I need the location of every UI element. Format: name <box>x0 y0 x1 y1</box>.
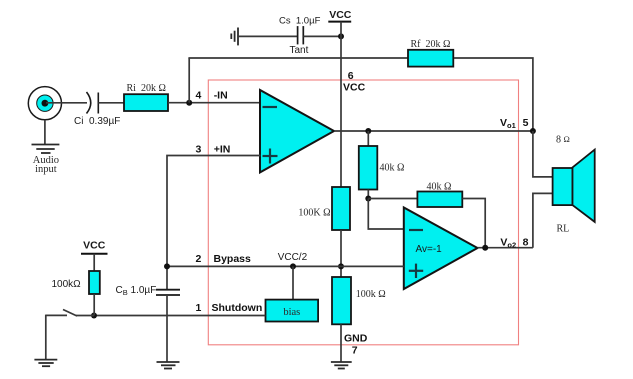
wire junction down to op-amp2 -IN <box>368 199 404 230</box>
wire 40k bottom to junction <box>367 190 369 199</box>
wire feedback rail to Rf <box>188 57 408 59</box>
svg-text:5: 5 <box>523 117 529 129</box>
node 4 junction <box>186 100 192 106</box>
switch SW1 <box>46 310 94 317</box>
wire VCC to 100k <box>93 254 95 271</box>
node divider tap VCC/2 <box>338 263 344 269</box>
wire connector to ground <box>44 120 46 145</box>
svg-text:CB 1.0µF: CB 1.0µF <box>116 285 157 297</box>
op-amp U2 Av=-1 <box>404 208 478 290</box>
svg-text:6: 6 <box>348 70 354 82</box>
svg-text:VCC: VCC <box>343 82 366 94</box>
capacitor Cs <box>298 26 304 44</box>
node Vo2 feedback junction <box>482 245 488 251</box>
speaker RL <box>553 150 595 222</box>
wire junction to 40k horizontal <box>368 198 417 200</box>
wire VCC rail down to divider <box>340 22 342 187</box>
svg-text:Rf 20k Ω: Rf 20k Ω <box>411 39 451 50</box>
svg-text:Bypass: Bypass <box>214 253 252 265</box>
svg-text:Av=-1: Av=-1 <box>416 244 443 255</box>
svg-text:40k Ω: 40k Ω <box>380 163 405 174</box>
svg-text:8 Ω: 8 Ω <box>556 134 570 146</box>
resistor Rf <box>408 50 453 67</box>
svg-text:-IN: -IN <box>214 89 228 101</box>
svg-text:Shutdown: Shutdown <box>212 302 263 314</box>
wire 40k to Vo2 feedback <box>462 199 485 248</box>
svg-text:3: 3 <box>195 144 201 156</box>
capacitor Ci <box>87 92 99 114</box>
capacitor CB <box>156 290 180 295</box>
wire op-amp2 output Vo2 <box>478 247 533 249</box>
power VCC (left) <box>81 240 108 254</box>
svg-text:2: 2 <box>195 253 201 265</box>
svg-text:1: 1 <box>195 302 201 314</box>
op-amp U1 <box>260 90 334 172</box>
node bias tap <box>290 263 296 269</box>
wire Ci to Ri <box>98 102 124 104</box>
ground (switch) <box>34 360 57 367</box>
resistor Ri <box>124 94 168 111</box>
wire Rf to output corner <box>454 58 533 131</box>
ground (GND pin 7) <box>331 362 352 369</box>
node feedback junction <box>365 196 371 202</box>
svg-text:GND: GND <box>344 333 368 345</box>
node Vo1 pin 5 <box>530 128 536 134</box>
wire switch to ground <box>45 315 47 360</box>
wire connector to Ci <box>46 102 87 104</box>
svg-text:100K Ω: 100K Ω <box>298 208 330 219</box>
ground (audio input) <box>32 145 60 154</box>
svg-text:VCC: VCC <box>83 240 106 252</box>
svg-text:VCC/2: VCC/2 <box>278 252 308 263</box>
svg-text:VCC: VCC <box>329 9 352 21</box>
ground (CB) <box>157 362 180 369</box>
wire node4 up to feedback rail <box>188 58 190 103</box>
label Audio input <box>33 155 59 175</box>
resistor 100k (lower divider) <box>332 277 351 324</box>
wire op-amp1 output Vo1 <box>334 130 533 132</box>
svg-text:input: input <box>35 164 57 175</box>
wire Cs to VCC node <box>303 35 341 37</box>
svg-text:bias: bias <box>283 307 300 318</box>
connector J1 audio input <box>28 87 61 120</box>
svg-text:7: 7 <box>352 344 358 356</box>
resistor 40k (vertical) <box>359 146 378 190</box>
svg-text:Ri 20k Ω: Ri 20k Ω <box>127 83 166 94</box>
wire CB to ground <box>166 295 168 362</box>
wire divider mid <box>340 230 342 277</box>
svg-text:100kΩ: 100kΩ <box>52 279 82 290</box>
svg-text:Cs 1.0µF: Cs 1.0µF <box>279 15 321 26</box>
svg-text:8: 8 <box>523 236 529 248</box>
node output/40k junction <box>365 128 371 134</box>
wire Bypass / VCC2 rail <box>167 265 404 267</box>
wire bias to VCC2 <box>292 266 294 299</box>
wire Vo1 to speaker <box>533 131 553 177</box>
node bypass junction <box>164 263 170 269</box>
wire ground to Cs <box>238 35 298 37</box>
resistor 40k (horizontal) <box>417 192 462 208</box>
node VCC/Cs junction <box>338 33 344 39</box>
wire Ri to op-amp1 -IN <box>168 102 261 104</box>
svg-text:40k Ω: 40k Ω <box>427 182 452 193</box>
svg-text:4: 4 <box>195 89 201 101</box>
IC boundary box <box>208 80 518 345</box>
svg-text:Ci 0.39µF: Ci 0.39µF <box>74 116 120 127</box>
svg-text:Tant: Tant <box>290 45 309 56</box>
svg-text:100k Ω: 100k Ω <box>356 289 386 300</box>
resistor 100K (upper divider) <box>332 187 350 230</box>
wire 100k to ground <box>340 324 342 362</box>
ground (Cs branch) <box>231 28 238 46</box>
wire 40k tap stub <box>367 131 369 146</box>
wire 100k to node <box>93 294 95 316</box>
wire Vo2 to speaker <box>533 193 553 247</box>
node shutdown junction <box>91 313 97 319</box>
wire shutdown <box>94 315 266 317</box>
bias block <box>266 300 319 322</box>
power VCC (top) <box>328 9 352 21</box>
svg-text:RL: RL <box>557 224 570 235</box>
svg-text:+IN: +IN <box>214 144 231 156</box>
wire +IN <box>167 156 261 290</box>
resistor 100k pullup <box>89 271 100 294</box>
